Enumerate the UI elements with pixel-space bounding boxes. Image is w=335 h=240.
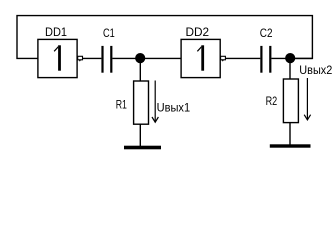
svg-text:DD2: DD2: [186, 25, 210, 39]
svg-text:DD1: DD1: [45, 25, 67, 39]
svg-text:R1: R1: [116, 97, 127, 111]
svg-text:Uвых1: Uвых1: [157, 101, 191, 115]
svg-text:C2: C2: [260, 26, 273, 40]
svg-text:Uвых2: Uвых2: [299, 63, 332, 77]
svg-text:R2: R2: [266, 94, 278, 108]
svg-text:C1: C1: [103, 26, 115, 40]
